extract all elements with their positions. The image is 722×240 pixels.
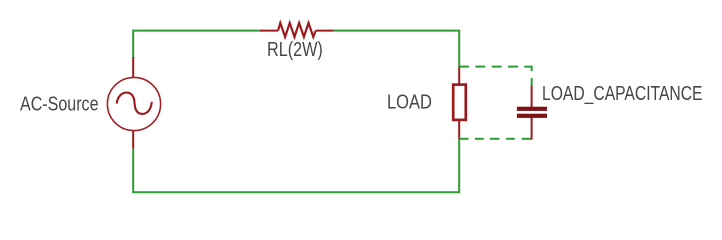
wire red lead left of resistor — [260, 30, 278, 32]
resistor LOAD box — [453, 85, 466, 120]
wire bottom green segment — [133, 139, 459, 193]
capacitor top plate — [517, 107, 547, 111]
wire top-right green segment — [333, 31, 459, 68]
resistor RL zigzag — [278, 23, 316, 37]
AC source V1 circle — [107, 77, 160, 130]
wire red stub below load — [458, 121, 460, 140]
dashed wire top to capacitor — [459, 67, 532, 86]
svg-text:LOAD_CAPACITANCE: LOAD_CAPACITANCE — [542, 83, 703, 105]
wire red stub above capacitor — [531, 86, 533, 108]
AC source sine wave — [117, 93, 152, 114]
wire red lead right of resistor — [316, 30, 333, 32]
svg-text:LOAD: LOAD — [387, 92, 432, 114]
wire red stub above load — [458, 67, 460, 84]
wire red stub below AC source — [132, 130, 134, 149]
capacitor bottom plate — [517, 114, 547, 118]
svg-text:AC-Source: AC-Source — [20, 93, 99, 115]
svg-text:RL(2W): RL(2W) — [267, 39, 323, 61]
wire top-left green segment — [133, 31, 260, 58]
wire red stub below capacitor — [531, 118, 533, 140]
wire red stub above AC source — [132, 57, 134, 78]
dashed wire bottom to capacitor — [459, 138, 531, 140]
